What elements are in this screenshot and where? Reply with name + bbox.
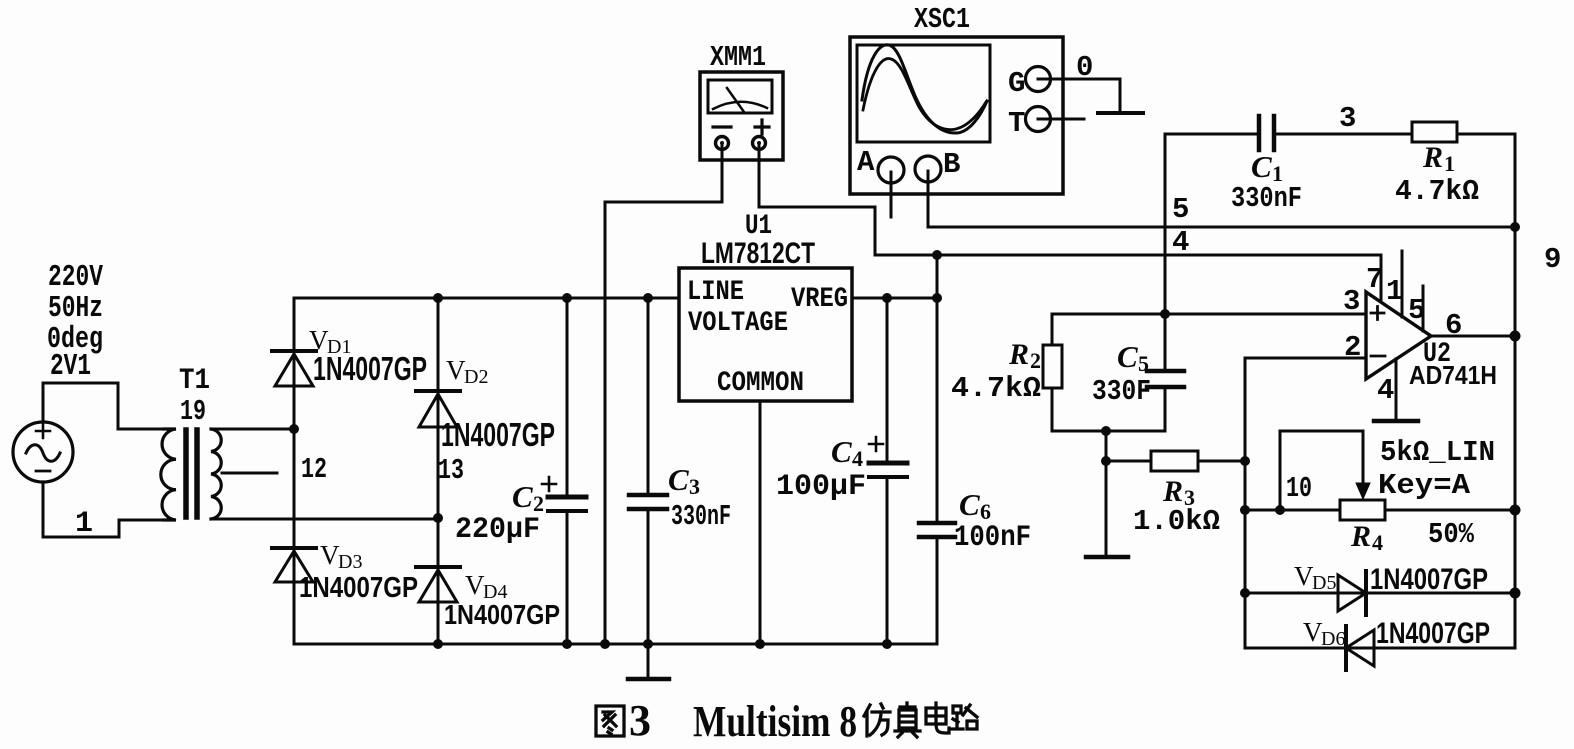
svg-text:D3: D3 bbox=[338, 551, 362, 573]
wire R3 right lead bbox=[1198, 460, 1245, 463]
node junction bus COMMON bbox=[755, 639, 765, 649]
op-amp pin 1 stub bbox=[1401, 251, 1404, 317]
node junction VREG C4 bbox=[882, 293, 892, 303]
node junction bypass left bbox=[1275, 505, 1285, 515]
capacitor C1 label bbox=[1231, 149, 1302, 215]
svg-text:5: 5 bbox=[1172, 193, 1189, 226]
transformer T1 primary winding bbox=[161, 429, 176, 520]
svg-text:XMM1: XMM1 bbox=[710, 41, 766, 74]
potentiometer R4 labels bbox=[1350, 436, 1495, 555]
oscilloscope XSC1 body bbox=[850, 37, 1063, 194]
node junction bottom loop R3 bbox=[1101, 426, 1111, 436]
capacitor C6 label bbox=[954, 487, 1031, 555]
svg-text:330nF: 330nF bbox=[1231, 182, 1302, 215]
wire XMM1 minus vertical bbox=[604, 202, 607, 644]
node junction VREG C6 bbox=[932, 293, 942, 303]
wire XMM1 plus terminal to node 4 line bbox=[759, 144, 875, 255]
node junction bus VD4 bbox=[433, 639, 443, 649]
capacitor C5 label bbox=[1092, 339, 1151, 408]
diode VD3 bbox=[272, 548, 316, 582]
svg-text:C: C bbox=[1117, 339, 1138, 374]
wire C1 to R1 bbox=[1274, 133, 1412, 136]
capacitor C3 label bbox=[668, 462, 731, 533]
svg-text:T1: T1 bbox=[179, 364, 210, 398]
node junction bus C4 bbox=[882, 639, 892, 649]
diode VD2 bbox=[416, 391, 460, 427]
node junction R3 left bbox=[1101, 456, 1111, 466]
wire secondary top lead to bridge bbox=[211, 428, 294, 431]
node junction line4 C6 branch bbox=[932, 250, 942, 260]
svg-text:13: 13 bbox=[438, 454, 464, 487]
node junction rail C2 bbox=[562, 293, 572, 303]
wire R4 line right bbox=[1385, 509, 1515, 512]
potentiometer R4 bypass loop bbox=[1280, 431, 1363, 510]
wire bottom ground bus bbox=[294, 643, 937, 646]
diode VD6 label bbox=[1303, 617, 1490, 650]
ground symbol R3 bbox=[1086, 555, 1128, 560]
op-amp pin 4 ground wire bbox=[1395, 359, 1398, 421]
svg-text:XSC1: XSC1 bbox=[914, 3, 970, 36]
svg-text:4: 4 bbox=[1377, 374, 1394, 407]
node junction R4 node9 bbox=[1510, 505, 1521, 516]
diode VD2 label bbox=[441, 355, 555, 453]
node junction R4 line inverting branch bbox=[1240, 505, 1250, 515]
wire source bottom to transformer primary bbox=[43, 482, 164, 537]
op-amp output pin 6 wire bbox=[1431, 335, 1515, 338]
wire COMMON pin to bus bbox=[759, 401, 762, 644]
svg-text:1.0kΩ: 1.0kΩ bbox=[1133, 505, 1220, 538]
svg-text:9: 9 bbox=[1544, 243, 1561, 276]
resistor R2 bbox=[1043, 314, 1062, 431]
capacitor C5 bbox=[1147, 314, 1184, 431]
svg-text:1N4007GP: 1N4007GP bbox=[313, 350, 427, 387]
svg-text:7: 7 bbox=[1366, 263, 1383, 296]
wire op-amp minus input bbox=[1245, 357, 1366, 360]
op-amp pin labels bbox=[1343, 263, 1462, 407]
wire R3 left lead bbox=[1106, 460, 1151, 463]
svg-text:VOLTAGE: VOLTAGE bbox=[688, 308, 788, 339]
resistor R1 label bbox=[1395, 141, 1479, 208]
wire node 4 line to op-amp pin 7 bbox=[875, 255, 1381, 303]
svg-text:1N4007GP: 1N4007GP bbox=[1376, 617, 1490, 650]
svg-text:4: 4 bbox=[1372, 530, 1383, 555]
caption hanzi fang bbox=[864, 704, 890, 736]
svg-text:D6: D6 bbox=[1321, 628, 1345, 650]
svg-text:100nF: 100nF bbox=[954, 521, 1031, 555]
op-amp plus minus marks bbox=[1371, 307, 1385, 357]
wire R3 branch down to ground bbox=[1105, 431, 1108, 557]
svg-text:1N4007GP: 1N4007GP bbox=[299, 572, 418, 604]
regulator U1 LM7812CT box bbox=[679, 268, 852, 401]
svg-text:1: 1 bbox=[1444, 151, 1455, 176]
regulator U1 pin texts bbox=[687, 277, 848, 399]
ground symbol scope bbox=[1098, 111, 1143, 115]
diode VD4 label bbox=[444, 570, 560, 630]
resistor R3 label bbox=[1133, 475, 1220, 538]
svg-text:VREG: VREG bbox=[791, 284, 848, 315]
svg-text:V: V bbox=[1294, 561, 1314, 591]
potentiometer R4 body bbox=[1340, 500, 1385, 520]
ground symbol main bus bbox=[628, 644, 669, 679]
svg-text:V: V bbox=[465, 570, 485, 600]
resistor R3 bbox=[1151, 451, 1198, 471]
svg-text:1N4007GP: 1N4007GP bbox=[444, 599, 560, 630]
wire secondary bottom lead to VD2/VD4 leg bbox=[211, 518, 438, 521]
svg-text:2: 2 bbox=[1344, 331, 1361, 364]
diode VD5 label bbox=[1294, 561, 1488, 596]
wire T terminal stub bbox=[1038, 118, 1084, 121]
diode VD4 bbox=[416, 567, 460, 602]
op-amp U2 triangle bbox=[1366, 292, 1431, 379]
node junction output node9 bbox=[1510, 331, 1521, 342]
svg-text:19: 19 bbox=[180, 395, 206, 428]
caption hanzi lu bbox=[952, 705, 977, 729]
svg-text:V: V bbox=[320, 540, 340, 570]
AC source V1 bbox=[13, 422, 73, 482]
svg-text:220µF: 220µF bbox=[455, 513, 540, 547]
node junction bus XMM1 minus bbox=[600, 639, 610, 649]
wire XMM1 minus terminal down and left bbox=[605, 144, 722, 202]
node junction R3 inverting branch bbox=[1240, 456, 1250, 466]
svg-text:R: R bbox=[1422, 141, 1443, 174]
ground symbol op-amp bbox=[1374, 419, 1418, 424]
capacitor C4 label bbox=[776, 434, 883, 504]
node junction secondary bottom bbox=[433, 513, 443, 523]
capacitor C3 bbox=[629, 298, 667, 644]
svg-text:50%: 50% bbox=[1428, 518, 1475, 551]
svg-text:330nF: 330nF bbox=[671, 500, 731, 533]
svg-text:2: 2 bbox=[1030, 348, 1041, 373]
svg-text:330F: 330F bbox=[1092, 375, 1151, 408]
regulator U1 labels bbox=[701, 211, 815, 270]
oscilloscope terminal B bbox=[915, 148, 960, 182]
potentiometer R4 wiper arrow bbox=[1356, 483, 1370, 499]
wire bridge right leg bbox=[437, 298, 440, 644]
node junction bus C2 bbox=[562, 639, 572, 649]
caption hanzi tu bbox=[596, 706, 624, 736]
node junction bus C3 bbox=[643, 639, 653, 649]
svg-text:220V: 220V bbox=[48, 260, 103, 295]
svg-text:COMMON: COMMON bbox=[717, 368, 804, 399]
svg-text:5kΩ_LIN: 5kΩ_LIN bbox=[1380, 436, 1495, 469]
wire C1 branch down to C5 node bbox=[1164, 227, 1167, 314]
svg-text:2V1: 2V1 bbox=[50, 349, 91, 384]
diode VD3 label bbox=[299, 540, 418, 604]
resistor R2 label bbox=[951, 338, 1041, 405]
source V1 label 220V 50Hz 0deg 2V1 bbox=[47, 260, 103, 384]
svg-text:50Hz: 50Hz bbox=[48, 291, 103, 326]
node junction VD5 left bbox=[1240, 588, 1250, 598]
svg-text:4: 4 bbox=[852, 446, 863, 471]
node junction VD5 node9 bbox=[1510, 588, 1521, 599]
svg-text:V: V bbox=[1303, 617, 1323, 647]
node junction top rail VD2 bbox=[433, 293, 443, 303]
svg-text:V: V bbox=[446, 355, 466, 385]
svg-text:1N4007GP: 1N4007GP bbox=[441, 416, 555, 453]
node junction secondary top bbox=[289, 424, 299, 434]
svg-text:12: 12 bbox=[301, 453, 327, 486]
node junction plus input C5 bbox=[1160, 309, 1170, 319]
node junction rail C3 bbox=[643, 293, 653, 303]
wire R2 C5 bottom join bbox=[1052, 430, 1165, 433]
svg-text:3: 3 bbox=[1343, 285, 1360, 318]
wire inverting input vertical branch bbox=[1244, 358, 1247, 648]
multimeter XMM1 body bbox=[700, 72, 783, 160]
wire B terminal to node 5 line bbox=[927, 171, 930, 227]
svg-text:4.7kΩ: 4.7kΩ bbox=[1395, 175, 1479, 208]
svg-text:4: 4 bbox=[1172, 226, 1189, 259]
svg-text:3: 3 bbox=[689, 474, 700, 499]
capacitor C2 bbox=[548, 298, 586, 644]
wire VD6 line bbox=[1245, 647, 1374, 650]
svg-text:D5: D5 bbox=[1312, 572, 1336, 594]
wire A terminal stub bbox=[890, 172, 893, 217]
oscilloscope terminal G bbox=[1008, 67, 1051, 101]
transformer T1 label bbox=[179, 364, 210, 428]
svg-text:R: R bbox=[1350, 520, 1371, 553]
svg-text:100µF: 100µF bbox=[776, 470, 866, 504]
op-amp U2 labels bbox=[1409, 339, 1497, 390]
svg-text:C: C bbox=[831, 434, 852, 469]
svg-text:5: 5 bbox=[1138, 351, 1149, 376]
caption figure 3 bbox=[596, 696, 977, 746]
svg-text:C: C bbox=[959, 487, 980, 522]
svg-text:1N4007GP: 1N4007GP bbox=[1370, 563, 1488, 596]
resistor R1 bbox=[1412, 122, 1457, 142]
svg-text:D2: D2 bbox=[464, 366, 488, 388]
svg-text:3: 3 bbox=[1339, 102, 1356, 135]
svg-text:C: C bbox=[512, 479, 533, 514]
capacitor C6 bbox=[919, 298, 955, 644]
transformer T1 core bbox=[186, 430, 197, 517]
svg-text:Key=A: Key=A bbox=[1378, 469, 1471, 502]
diode VD1 bbox=[272, 351, 316, 386]
svg-text:T: T bbox=[1008, 107, 1025, 140]
oscilloscope terminal T bbox=[1008, 107, 1051, 141]
svg-text:AD741H: AD741H bbox=[1409, 360, 1497, 390]
wire G terminal to ground bbox=[1038, 79, 1120, 112]
capacitor C2 label bbox=[455, 477, 556, 547]
wire node 5 line bbox=[928, 226, 1515, 229]
svg-text:R: R bbox=[1162, 475, 1183, 508]
svg-text:10: 10 bbox=[1286, 472, 1312, 505]
capacitor C4 bbox=[869, 298, 907, 644]
svg-text:B: B bbox=[943, 148, 960, 181]
diode VD6 bbox=[1346, 626, 1374, 670]
wire VD5 line bbox=[1245, 592, 1366, 595]
caption hanzi dian bbox=[926, 703, 949, 733]
svg-text:3: 3 bbox=[629, 696, 651, 745]
svg-text:G: G bbox=[1008, 67, 1025, 100]
svg-text:A: A bbox=[857, 146, 875, 179]
wire C1 feedback loop top left bbox=[1165, 134, 1259, 227]
wire top rail to regulator LINE input bbox=[294, 297, 679, 300]
wire secondary centre tap stub node 12 bbox=[222, 472, 277, 475]
wire source top to transformer primary bbox=[43, 383, 164, 429]
wire bridge left leg bbox=[293, 298, 296, 644]
wire R1 to node 9 vertical bbox=[1457, 134, 1515, 648]
svg-text:LM7812CT: LM7812CT bbox=[701, 237, 815, 270]
svg-text:C: C bbox=[668, 462, 689, 497]
caption hanzi zhen bbox=[895, 703, 920, 737]
oscilloscope terminal A bbox=[857, 146, 904, 183]
wire R4 line left bbox=[1245, 509, 1340, 512]
svg-text:Multisim 8: Multisim 8 bbox=[693, 697, 857, 746]
wire VD5 line right bbox=[1366, 592, 1515, 595]
diode VD1 label bbox=[309, 325, 427, 387]
svg-text:4.7kΩ: 4.7kΩ bbox=[951, 372, 1041, 405]
diode VD5 bbox=[1338, 571, 1366, 615]
transformer T1 secondary winding bbox=[211, 429, 221, 519]
svg-text:R: R bbox=[1008, 338, 1029, 371]
op-amp pin 5 stub bbox=[1422, 286, 1425, 331]
wire VD6 line right bbox=[1374, 647, 1515, 650]
svg-text:LINE: LINE bbox=[687, 277, 744, 308]
node junction line5 node9 bbox=[1510, 222, 1520, 232]
wire VREG output bbox=[852, 297, 937, 300]
wire op-amp plus input bbox=[1052, 313, 1366, 316]
capacitor C1 bbox=[1259, 116, 1274, 150]
wire line4 to VREG node bbox=[936, 255, 939, 298]
svg-text:C: C bbox=[1251, 149, 1272, 184]
